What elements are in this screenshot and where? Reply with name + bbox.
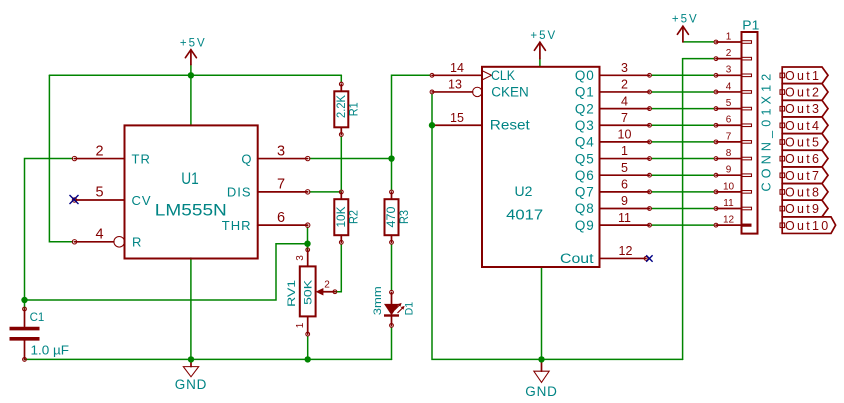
global label Out5 — [780, 134, 828, 151]
wire +5V top rail — [49, 74, 341, 76]
svg-text:1.0 µF: 1.0 µF — [31, 344, 70, 358]
svg-text:THR: THR — [222, 218, 252, 233]
wire U2 GND stem — [541, 267, 543, 359]
svg-text:Out8: Out8 — [785, 185, 821, 199]
capacitor C1 plates — [10, 327, 40, 331]
resistor R1 2.2K — [334, 82, 361, 136]
U2 pin 11 Q9 — [575, 211, 652, 233]
wire R1 top drop — [340, 75, 342, 82]
svg-text:14: 14 — [450, 61, 464, 75]
svg-text:Out3: Out3 — [785, 102, 821, 116]
svg-text:1: 1 — [726, 31, 732, 42]
global label Out7 — [780, 167, 828, 184]
potentiometer RV1 wiper pin2 — [321, 291, 335, 293]
svg-text:Q1: Q1 — [575, 85, 595, 100]
svg-text:R3: R3 — [397, 210, 411, 224]
wire Q3 to P1 pin6 — [652, 124, 715, 126]
P1 pin 4 — [714, 81, 751, 94]
U2 pin 7 Q3 — [575, 111, 652, 133]
U2 pin 9 Q8 — [575, 194, 652, 216]
wire U1 VCC stem — [190, 65, 192, 126]
svg-text:+5V: +5V — [530, 30, 557, 42]
no-connect X on CV — [70, 195, 79, 204]
svg-text:Out9: Out9 — [785, 202, 821, 216]
ground GND left — [175, 359, 207, 392]
svg-text:Out6: Out6 — [785, 152, 821, 166]
potentiometer RV1 pin3 — [306, 248, 310, 252]
svg-text:9: 9 — [621, 194, 628, 208]
wire RV1 pin1 to rail — [307, 336, 309, 359]
U2 pin 2 Q1 — [575, 78, 652, 100]
wire Q5 to P1 pin8 — [652, 158, 715, 160]
svg-text:Reset: Reset — [490, 116, 530, 132]
P1 pin 9 — [714, 165, 751, 178]
U1 pin 5 CV — [72, 185, 151, 208]
global label Out8 — [780, 184, 828, 201]
U2 pin 12 Cout — [560, 244, 648, 266]
capacitor C1 top pin — [23, 307, 27, 311]
wire Q8 to P1 pin11 — [652, 208, 715, 210]
junction RV1 pin1 on rail — [305, 356, 311, 362]
svg-text:6: 6 — [726, 115, 732, 126]
svg-text:13: 13 — [448, 78, 462, 92]
junction U2 GND — [538, 356, 544, 362]
svg-text:10: 10 — [618, 128, 632, 142]
svg-text:Q3: Q3 — [575, 118, 595, 133]
LED D1 triangle — [384, 304, 399, 315]
svg-text:U2: U2 — [515, 183, 533, 199]
P1 pin 3 — [714, 65, 751, 78]
resistor R3 470 — [384, 190, 411, 244]
counter U2 body — [482, 67, 600, 267]
svg-text:4017: 4017 — [506, 207, 543, 224]
svg-text:TR: TR — [132, 151, 151, 166]
junction +5V / U1 — [188, 72, 194, 78]
svg-text:7: 7 — [726, 131, 732, 142]
LED D1 light arrows — [395, 305, 400, 310]
svg-text:Out4: Out4 — [785, 119, 821, 133]
global label Out9 — [780, 200, 828, 217]
wire bottom left rail — [25, 358, 392, 360]
junction TR / C1 / THR loop — [21, 297, 27, 303]
svg-text:3: 3 — [621, 61, 628, 75]
svg-text:5: 5 — [621, 161, 628, 175]
svg-text:CKEN: CKEN — [491, 85, 529, 100]
svg-text:12: 12 — [723, 215, 735, 226]
svg-text:Q7: Q7 — [575, 185, 595, 200]
svg-text:4: 4 — [726, 81, 732, 92]
wire THR loop horizontal — [25, 244, 308, 300]
U1 pin 3 Q — [241, 143, 310, 166]
svg-text:3mm: 3mm — [372, 286, 384, 315]
P1 pin 2 — [714, 48, 751, 61]
svg-text:2.2K: 2.2K — [334, 95, 348, 118]
ground GND right (U2) — [525, 359, 557, 399]
P1 pin 10 — [714, 181, 751, 194]
op-amp U1 body — [125, 125, 258, 258]
svg-text:Q0: Q0 — [575, 68, 595, 83]
U2 pin 14 CLK — [430, 61, 515, 83]
U2 pin 13 CKEN (inverted) — [430, 78, 529, 100]
global label Out10 — [780, 217, 836, 234]
U2 pin 15 Reset — [430, 111, 530, 132]
svg-text:Out1: Out1 — [785, 69, 821, 83]
global label Out3 — [780, 100, 828, 117]
P1 pin 11 — [714, 198, 751, 211]
svg-text:CV: CV — [132, 193, 152, 208]
svg-text:2: 2 — [324, 280, 330, 291]
no-connect X on Cout — [646, 255, 652, 261]
svg-text:7: 7 — [277, 177, 285, 193]
U2 pin 1 Q5 — [575, 144, 652, 166]
P1 pin 12 — [714, 215, 751, 228]
svg-text:Out7: Out7 — [785, 169, 821, 183]
svg-text:10: 10 — [723, 181, 735, 192]
wire Q9 to P1 pin12 — [652, 224, 715, 226]
svg-text:1: 1 — [295, 322, 306, 328]
power +5V (P1) — [672, 14, 699, 42]
svg-text:Q9: Q9 — [575, 218, 595, 233]
U2 pin 6 Q7 — [575, 178, 652, 200]
svg-text:1: 1 — [621, 144, 628, 158]
svg-text:2: 2 — [621, 78, 628, 92]
LED D1 cathode pin — [391, 316, 393, 326]
svg-text:R1: R1 — [347, 102, 361, 116]
global label Out2 — [780, 84, 828, 101]
svg-text:C1: C1 — [30, 312, 45, 324]
P1 pin 5 — [714, 98, 751, 111]
svg-text:11: 11 — [618, 211, 631, 225]
svg-text:DIS: DIS — [227, 185, 252, 200]
U1 pin 2 TR — [72, 143, 151, 166]
U1 pin 6 THR — [222, 210, 310, 233]
svg-text:P1: P1 — [742, 18, 759, 33]
wire +5V P1 pin1 — [683, 41, 714, 43]
wire P1 pin2 to ground column — [683, 58, 714, 60]
svg-text:GND: GND — [525, 384, 557, 399]
global label Out4 — [780, 117, 828, 134]
global label Out6 — [780, 150, 828, 167]
junction Reset / CKEN — [429, 122, 435, 128]
wire CKEN vertical to bottom rail — [432, 94, 683, 359]
svg-text:R: R — [132, 235, 141, 250]
U1 pin 7 DIS — [227, 177, 310, 200]
svg-text:GND: GND — [175, 377, 207, 392]
global label Out1 — [780, 67, 828, 84]
svg-text:12: 12 — [619, 244, 633, 258]
svg-text:RV1: RV1 — [286, 280, 298, 307]
P1 pin 8 — [714, 148, 751, 161]
svg-text:D1: D1 — [404, 302, 416, 316]
svg-text:8: 8 — [726, 148, 732, 159]
svg-text:+5V: +5V — [180, 38, 207, 50]
potentiometer RV1 pin1 — [307, 316, 309, 334]
wire Q2 to P1 pin5 — [652, 108, 715, 110]
wire R2 bottom to RV1 wiper — [335, 244, 341, 291]
junction Q net — [388, 155, 394, 161]
svg-text:7: 7 — [621, 111, 628, 125]
power +5V (U2) — [530, 30, 557, 59]
wire Q1 to P1 pin4 — [652, 91, 715, 93]
wire Q net down to R3 — [391, 159, 393, 190]
svg-text:Q8: Q8 — [575, 201, 595, 216]
svg-text:Out10: Out10 — [785, 219, 831, 233]
wire Q7 to P1 pin10 — [652, 191, 715, 193]
svg-text:+5V: +5V — [672, 14, 699, 26]
svg-text:3: 3 — [726, 65, 732, 76]
svg-text:Out5: Out5 — [785, 136, 821, 150]
wire D1 cathode to bottom rail — [391, 327, 393, 359]
svg-text:5: 5 — [95, 185, 103, 201]
wire TR to C1 top — [25, 159, 73, 309]
svg-text:50K: 50K — [303, 279, 315, 305]
svg-text:5: 5 — [726, 98, 732, 109]
P1 pin 1 — [714, 31, 751, 43]
P1 pin 7 — [714, 131, 751, 144]
U2 pin 5 Q6 — [575, 161, 652, 183]
power +5V (U1) — [180, 38, 207, 65]
wire R3 bottom to D1 anode — [391, 244, 393, 290]
svg-text:15: 15 — [450, 111, 464, 125]
svg-text:9: 9 — [726, 165, 732, 176]
svg-text:4: 4 — [95, 227, 103, 243]
svg-text:2: 2 — [95, 143, 103, 159]
svg-text:Q5: Q5 — [575, 151, 595, 166]
capacitor C1 bottom pin — [24, 341, 26, 360]
svg-text:LM555N: LM555N — [155, 201, 227, 220]
svg-text:CONN_01X12: CONN_01X12 — [760, 70, 774, 192]
svg-text:6: 6 — [277, 210, 285, 226]
resistor R2 10K — [334, 190, 361, 244]
junction left GND — [188, 356, 194, 362]
svg-text:2: 2 — [726, 48, 732, 59]
wire DIS to column — [310, 191, 342, 193]
wire Q4 to P1 pin7 — [652, 141, 715, 143]
wire U1 GND stem to bottom rail — [190, 258, 192, 359]
junction THR / RV1 pin3 — [304, 241, 310, 247]
wire Q0 to P1 pin3 — [652, 74, 715, 76]
svg-text:3: 3 — [277, 143, 285, 159]
wire left rail down to pin4 R — [49, 75, 72, 242]
svg-text:3: 3 — [295, 255, 306, 261]
U2 pin 10 Q4 — [575, 128, 652, 150]
LED D1 cathode bar — [384, 314, 399, 316]
svg-text:Q: Q — [241, 151, 251, 166]
U2 pin 3 Q0 — [575, 61, 652, 83]
wire Q6 to P1 pin9 — [652, 174, 715, 176]
wire Q net up to CLK — [392, 75, 431, 158]
wire Q net horizontal — [310, 158, 392, 160]
LED D1 anode pin — [390, 290, 394, 294]
svg-text:Cout: Cout — [560, 251, 594, 266]
U2 pin 4 Q2 — [575, 94, 652, 116]
svg-text:Q4: Q4 — [575, 135, 595, 150]
potentiometer RV1 body — [300, 266, 316, 316]
U1 pin 4 R (inverted) — [72, 227, 141, 250]
connector P1 body — [742, 32, 758, 234]
svg-text:U1: U1 — [181, 169, 199, 188]
svg-text:R2: R2 — [347, 210, 361, 224]
svg-text:10K: 10K — [334, 207, 348, 228]
wire R1 bottom to R2 top (DIS column) — [340, 137, 342, 190]
svg-text:11: 11 — [723, 198, 734, 209]
svg-text:CLK: CLK — [491, 68, 515, 83]
P1 pin 6 — [714, 115, 751, 128]
wire THR loop to C1 — [307, 227, 309, 250]
svg-text:Out2: Out2 — [785, 86, 821, 100]
svg-text:Q6: Q6 — [575, 168, 595, 183]
svg-text:Q2: Q2 — [575, 101, 595, 116]
svg-text:4: 4 — [621, 94, 628, 108]
svg-text:6: 6 — [621, 178, 628, 192]
wire U2 VDD stem — [539, 59, 541, 67]
wire P1 pin2 ground vertical — [682, 59, 684, 360]
